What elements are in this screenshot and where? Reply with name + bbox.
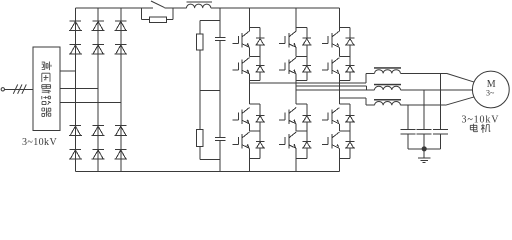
diode D20	[302, 142, 312, 149]
svg-text:3~: 3~	[486, 88, 495, 97]
transistor Q8	[279, 132, 296, 148]
transistor Q1	[232, 31, 249, 47]
wire rectifier top rail	[75, 7, 152, 9]
resistor R3 balancing lower	[197, 130, 203, 147]
rectifier leg 2	[97, 8, 99, 171]
wire rail to inductor	[165, 7, 187, 9]
wire reactor LF1 to motor	[401, 72, 447, 74]
label breaker char 2 ya	[42, 73, 50, 82]
wire phase V output line	[296, 89, 374, 91]
capacitor C2 lower dc-link	[215, 90, 226, 171]
wire phase W output line	[339, 98, 374, 105]
transistor Q12	[322, 132, 339, 148]
wire phase V output stub	[296, 86, 366, 90]
transistor Q4	[232, 132, 249, 148]
svg-text:3~10kV: 3~10kV	[462, 114, 500, 125]
inverter leg 1 lower wires	[250, 104, 261, 171]
wire input line	[5, 88, 34, 90]
diode D3 row1 leg3	[114, 21, 127, 31]
capacitor C3 filter phase W	[400, 105, 415, 149]
reactor LF1	[374, 67, 401, 73]
inverter leg 2 upper wires	[296, 8, 307, 104]
wire taps from breaker box to rectifier legs	[60, 70, 76, 72]
wire reactor LF3 to motor	[401, 104, 446, 106]
switch S1 blade	[151, 1, 165, 8]
resistor R2 balancing upper	[197, 34, 203, 50]
wire filter star bus	[408, 148, 441, 150]
transistor Q6	[279, 58, 296, 74]
capacitor C1 upper dc-link	[215, 8, 226, 90]
diode D12 row4 leg3	[114, 149, 127, 159]
capacitor C4 filter phase V	[417, 90, 432, 149]
wire dc resistor chain upper-lower	[199, 50, 201, 90]
wire rail inductor to inverter	[211, 7, 340, 9]
diode D11 row4 leg2	[92, 149, 105, 159]
wire dc resistor chain bottom	[200, 147, 220, 160]
diode D2 row1 leg2	[92, 21, 105, 31]
diode D10 row4 leg1	[69, 149, 82, 159]
diode D16	[255, 142, 265, 149]
transistor Q11	[322, 108, 339, 124]
wire rectifier bottom rail	[75, 8, 339, 171]
resistor R1 precharge	[149, 17, 166, 22]
reactor LF2	[374, 84, 401, 90]
wire dc mid junction	[200, 89, 220, 91]
wire bypass loop right	[166, 8, 173, 20]
diode D19	[302, 115, 312, 122]
label motor chinese	[470, 124, 490, 133]
inductor L1 core	[186, 1, 212, 2]
diode D17	[302, 38, 312, 45]
diode D21	[345, 38, 355, 45]
inverter leg 1 upper wires	[250, 8, 261, 104]
diode D9 row3 leg3	[114, 126, 127, 136]
label breaker char 1 gao	[42, 62, 51, 71]
label breaker char 5 qi	[42, 108, 51, 117]
diode D1 row1 leg1	[69, 21, 82, 31]
inverter leg 3 lower wires	[339, 104, 350, 171]
diode D22	[345, 65, 355, 72]
input terminal	[1, 88, 4, 91]
transistor Q10	[322, 58, 339, 74]
diode D8 row3 leg2	[92, 126, 105, 136]
diode D24	[345, 142, 355, 149]
3-phase slash marks	[13, 84, 26, 93]
diode D23	[345, 115, 355, 122]
diode D5 row2 leg2	[92, 44, 105, 54]
diode D6 row2 leg3	[114, 44, 127, 54]
rectifier leg 3	[120, 8, 122, 171]
diode D13	[255, 38, 265, 45]
transistor Q5	[279, 31, 296, 47]
inverter leg 2 lower wires	[296, 104, 307, 171]
HV breaker box	[33, 47, 60, 131]
wire dc resistor chain top branch	[200, 20, 220, 34]
wire reactor LF2 to motor	[401, 89, 474, 91]
wire ground stem	[423, 149, 425, 158]
transistor Q2	[232, 58, 249, 74]
wire phase U output line	[250, 73, 375, 83]
diode D15	[255, 115, 265, 122]
ground	[418, 158, 430, 162]
capacitor C5 filter phase U	[433, 73, 448, 148]
inverter leg 3 upper wires	[339, 8, 350, 104]
svg-text:3~10kV: 3~10kV	[22, 137, 57, 148]
label breaker char 3 duan	[42, 85, 51, 94]
wire dc resistor chain to lower resistor	[199, 90, 201, 129]
diode D7 row3 leg1	[69, 126, 82, 136]
motor M1 circle	[472, 71, 509, 108]
diode D18	[302, 65, 312, 72]
transistor Q3	[232, 108, 249, 124]
transistor Q7	[279, 108, 296, 124]
wire bypass loop left	[142, 8, 150, 20]
label breaker char 4 lu	[42, 96, 51, 105]
inductor L1 coil	[187, 4, 211, 8]
transistor Q9	[322, 31, 339, 47]
diode D4 row2 leg1	[69, 44, 82, 54]
diode D14	[255, 65, 265, 72]
reactor LF3	[374, 99, 401, 105]
node star point junction	[422, 146, 427, 151]
